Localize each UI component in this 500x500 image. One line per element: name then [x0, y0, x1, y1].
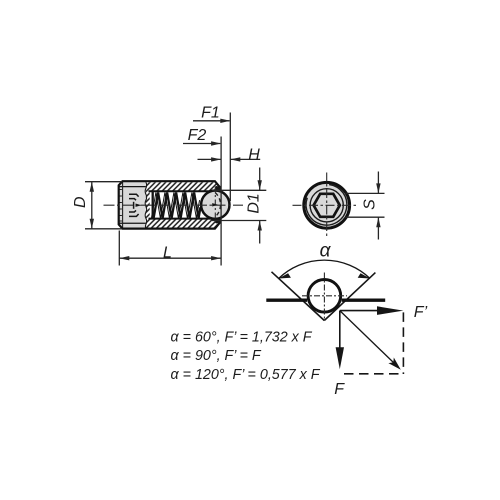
- svg-text:H: H: [248, 146, 260, 163]
- svg-text:α = 60°, F’ = 1,732 x F: α = 60°, F’ = 1,732 x F: [171, 329, 313, 345]
- svg-text:F’: F’: [414, 304, 428, 321]
- svg-text:α = 120°, F’ = 0,577 x F: α = 120°, F’ = 0,577 x F: [171, 367, 321, 383]
- svg-text:α = 90°, F’ = F: α = 90°, F’ = F: [171, 348, 262, 364]
- svg-text:D1: D1: [245, 193, 262, 213]
- svg-text:F2: F2: [188, 127, 207, 144]
- svg-text:D: D: [72, 196, 89, 208]
- svg-text:F: F: [334, 381, 345, 398]
- svg-text:α: α: [320, 241, 332, 262]
- svg-text:L: L: [163, 245, 172, 262]
- svg-text:F1: F1: [201, 104, 220, 121]
- svg-text:S: S: [362, 199, 379, 210]
